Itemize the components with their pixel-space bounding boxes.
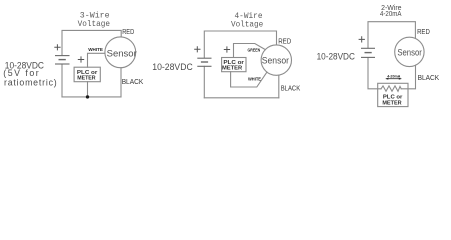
svg-text:RED: RED xyxy=(278,36,291,45)
svg-text:METER: METER xyxy=(222,65,242,71)
svg-text:METER: METER xyxy=(382,100,401,106)
svg-text:4-20mA: 4-20mA xyxy=(380,9,402,18)
svg-text:METER: METER xyxy=(77,75,95,81)
svg-text:WHITE: WHITE xyxy=(248,76,262,82)
svg-text:BLACK: BLACK xyxy=(418,73,440,82)
svg-text:RED: RED xyxy=(122,27,134,36)
svg-text:BLACK: BLACK xyxy=(122,77,144,86)
svg-text:4-20mA: 4-20mA xyxy=(387,74,400,78)
svg-text:GREEN: GREEN xyxy=(248,48,261,53)
svg-text:Voltage: Voltage xyxy=(78,19,110,29)
svg-text:Sensor: Sensor xyxy=(107,48,137,59)
svg-text:10-28VDC: 10-28VDC xyxy=(317,52,356,62)
svg-text:Voltage: Voltage xyxy=(231,19,263,29)
svg-text:RED: RED xyxy=(417,27,430,36)
svg-text:10-28VDC: 10-28VDC xyxy=(152,62,193,72)
svg-text:Sensor: Sensor xyxy=(262,56,289,67)
svg-text:Sensor: Sensor xyxy=(397,48,422,58)
svg-text:BLACK: BLACK xyxy=(281,84,301,93)
svg-text:WHITE: WHITE xyxy=(88,47,103,52)
svg-text:ratiometric): ratiometric) xyxy=(4,77,57,87)
